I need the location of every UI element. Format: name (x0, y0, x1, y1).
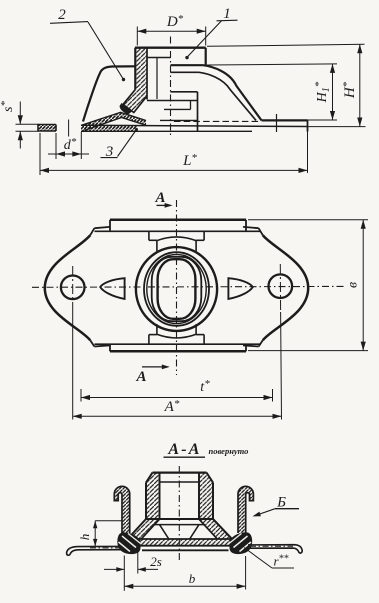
svg-text:A: A (135, 369, 146, 385)
svg-text:b: b (189, 571, 196, 586)
svg-text:2s: 2s (150, 554, 162, 569)
svg-text:А-А: А-А (167, 441, 201, 458)
svg-text:1: 1 (223, 6, 231, 22)
svg-text:h: h (77, 534, 92, 541)
svg-text:повернуто: повернуто (209, 446, 249, 456)
svg-text:в: в (346, 282, 361, 288)
svg-text:2: 2 (58, 7, 66, 23)
svg-text:A: A (154, 190, 165, 206)
